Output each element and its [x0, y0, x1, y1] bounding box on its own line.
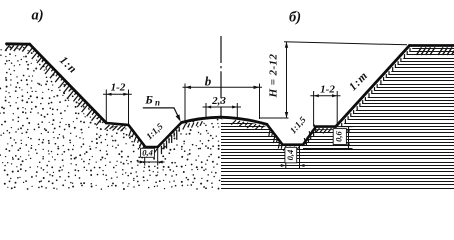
surface ticks right ditch inner slope: [269, 129, 282, 149]
leader line for label Bp pointing to roadbed edge: [143, 108, 179, 118]
right ditch inner slope line: [267, 124, 283, 144]
surface ticks right top ground: [417, 47, 454, 55]
dimension 1-2 left berm: dimension line: [103, 93, 132, 95]
dimension 0,6: vertical dimension line: [348, 127, 350, 149]
dimension H: top extension line at natural ground level: [284, 42, 407, 45]
dimension 0,4 right ditch: extension line right: [299, 146, 301, 169]
dimension 1-2 left berm: extension line left: [105, 90, 107, 124]
right ditch bottom line: [283, 143, 304, 146]
staircase hatch steps along slope 1:m and right ditch slope: [306, 48, 410, 145]
dimension 0,4 left ditch: extension line left: [144, 148, 146, 166]
dimension 1-2 left berm: extension line right: [128, 90, 130, 125]
dimension 0,4 right ditch: extension line left: [285, 146, 287, 169]
svg-text:1-2: 1-2: [111, 82, 126, 94]
left ditch inner slope line: [129, 125, 146, 147]
dimension H: vertical dimension line: [286, 42, 288, 118]
surface ticks left ditch bottom: [146, 149, 157, 153]
svg-text:п: п: [155, 98, 160, 108]
left ditch bottom line: [145, 146, 157, 149]
roadbed crown curve: [182, 117, 268, 124]
dimension 1-2 right berm: extension line left: [313, 91, 315, 127]
dimension 0,4 left ditch: boxed value label: [141, 148, 155, 157]
ground surface line, left natural ground: [7, 42, 30, 45]
surface ticks left top ground: [5, 45, 27, 51]
svg-text:а): а): [32, 8, 44, 24]
svg-text:Б: Б: [144, 93, 153, 107]
svg-text:0,4: 0,4: [142, 148, 153, 158]
surface ticks right berm: [316, 128, 332, 133]
dimension b: dimension line: [183, 86, 263, 88]
dimension 0,4 left ditch: dimension line with outside arrows: [138, 161, 165, 163]
svg-text:0,4: 0,4: [285, 150, 295, 161]
left berm line: [106, 123, 128, 125]
cut slope 1:m line, right section: [336, 46, 410, 127]
surface ticks right ditch bottom: [283, 147, 299, 151]
cut slope 1:n line, left section: [30, 44, 107, 123]
dimension 0,6: top extension line at berm level: [336, 126, 353, 128]
hatch fill: soil of right section (b), horizontal lines: [221, 49, 454, 189]
surface ticks roadbed crown left: [183, 121, 203, 129]
right ditch outer slope line 1:1,5: [303, 127, 316, 145]
svg-text:Н = 2-12: Н = 2-12: [268, 54, 280, 99]
svg-text:б): б): [289, 10, 301, 26]
dimension 1-2 right berm: dimension line: [310, 95, 340, 97]
dimension 2,3: extension line left: [205, 103, 207, 120]
dimension H: bottom extension line at roadbed edge level: [260, 117, 289, 119]
surface ticks left ditch outer slope: [161, 127, 179, 154]
surface ticks roadbed crown right: [231, 120, 264, 129]
surface ticks left slope 1:n: [28, 48, 104, 126]
road axis centerline (dash-dot): [220, 36, 222, 119]
dimension 2,3: extension line right: [236, 103, 238, 119]
svg-text:2,3: 2,3: [211, 95, 226, 107]
svg-text:0,6: 0,6: [334, 131, 344, 142]
svg-text:1-2: 1-2: [320, 84, 335, 96]
surface ticks right ditch outer slope: [304, 124, 315, 143]
dimension 0,4 right ditch: dimension line with outside arrows: [279, 165, 307, 167]
surface ticks left ditch inner slope: [129, 130, 144, 150]
dimension 2,3: dimension line: [203, 106, 242, 108]
dimension 0,6: bottom extension line at ditch bottom level: [303, 148, 353, 150]
surface ticks left berm: [105, 125, 126, 131]
right berm line: [316, 125, 336, 128]
dimension b: extension line left: [184, 84, 186, 123]
dimension 0,4 left ditch: extension line right: [157, 148, 159, 166]
dimension 0,4 right ditch: boxed value label (rotated): [285, 147, 297, 163]
left ditch outer slope line 1:1,5: [158, 123, 182, 148]
ground surface line, right natural ground: [410, 44, 454, 47]
dimension b: extension line right: [259, 84, 261, 120]
dimension 1-2 right berm: extension line right: [336, 91, 338, 127]
dimension 0,6: boxed value label (rotated): [333, 129, 346, 145]
svg-text:b: b: [205, 74, 212, 89]
stipple fill: soil of left section (a): [0, 44, 220, 190]
